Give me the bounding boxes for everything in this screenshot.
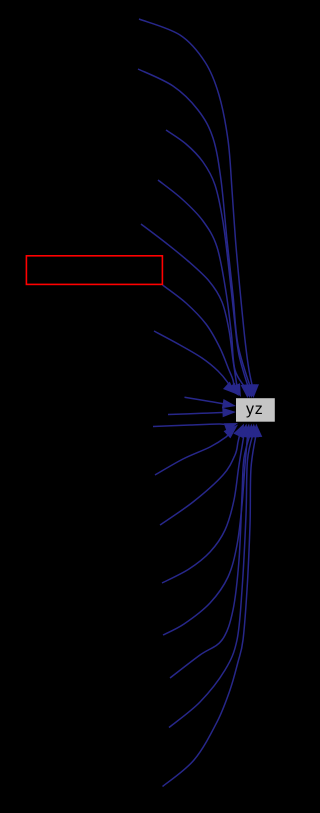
edge from node 13 to yz [162,424,249,583]
edge from node 10 to yz [153,423,238,432]
node yz [236,398,275,422]
edge from node 2 to yz [138,69,257,398]
edge from node 12 to yz [160,424,244,525]
edge from node 8 to yz [185,397,237,408]
edge from node 14 to yz [163,424,253,635]
edge from node 11 to yz [155,425,238,476]
edge from node 1 to yz [139,19,259,398]
edge from node 15 to yz [170,424,256,678]
edge from red node to yz [163,285,240,396]
edge from node 17 to yz [163,424,263,787]
edge from node 4 to yz [158,180,253,398]
red truncated node [26,256,162,285]
svg-text:yz: yz [246,401,264,418]
edge from node 16 to yz [169,424,259,728]
edge from node 5 to yz [141,224,241,397]
edge from node 9 to yz [168,408,236,418]
edge from node 3 to yz [166,130,255,398]
edge from node 7 to yz [154,331,236,394]
